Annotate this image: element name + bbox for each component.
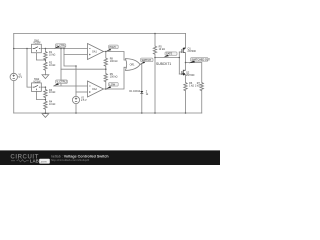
wire OA1 plus input bbox=[64, 54, 88, 56]
resistor R6 bbox=[184, 83, 187, 91]
node flag OA2 out bbox=[106, 83, 118, 89]
svg-text:10 kΩ: 10 kΩ bbox=[49, 53, 56, 56]
svg-text:D1 1N914: D1 1N914 bbox=[129, 90, 140, 93]
ground GND2 bbox=[42, 114, 49, 118]
wire Q1 gate stub bbox=[179, 51, 182, 53]
wire Q1 source bbox=[185, 53, 187, 63]
svg-text:2.5 V: 2.5 V bbox=[81, 99, 87, 102]
svg-text:OR1: OR1 bbox=[130, 64, 136, 67]
wire divider between outputs bbox=[105, 52, 107, 90]
wire input line y48.5 bbox=[14, 48, 88, 50]
wire bottom rail bbox=[14, 112, 202, 114]
svg-text:OA2: OA2 bbox=[92, 88, 97, 91]
wire x155 column bbox=[154, 34, 156, 114]
op-amp OA1 bbox=[88, 44, 104, 60]
svg-text:SWITCHED OUT: SWITCHED OUT bbox=[192, 59, 211, 62]
switch SW1 box bbox=[32, 44, 42, 53]
svg-text:10 kΩ: 10 kΩ bbox=[49, 91, 56, 94]
resistor R5 bbox=[153, 46, 156, 54]
node flag gate bbox=[164, 52, 177, 57]
svg-text:OA1: OA1 bbox=[92, 51, 97, 54]
wire Q1 drain bbox=[185, 34, 187, 49]
logo chip bbox=[39, 159, 50, 164]
svg-text:10 kΩ: 10 kΩ bbox=[159, 48, 166, 51]
wire OR out down bbox=[140, 65, 142, 114]
node flag OR out bbox=[140, 58, 153, 64]
wire SW2 right pin bbox=[41, 86, 45, 88]
svg-text:LAB: LAB bbox=[30, 159, 39, 164]
wire chain2 bbox=[44, 87, 46, 113]
svg-text:HIGH: HIGH bbox=[110, 46, 116, 49]
source V1 bbox=[10, 73, 17, 80]
svg-text:http://circuitlab.com/c9v4qs5: http://circuitlab.com/c9v4qs5 bbox=[51, 158, 90, 162]
svg-text:100 kΩ: 100 kΩ bbox=[110, 75, 118, 78]
svg-text:1 kΩ: 1 kΩ bbox=[189, 84, 194, 87]
svg-text:GATE: GATE bbox=[166, 53, 173, 56]
wire top rail bbox=[14, 33, 186, 35]
resistor R2 bbox=[44, 62, 47, 70]
wire x61 drop to OA2 minus bbox=[54, 49, 88, 87]
node flag left lower bbox=[54, 80, 68, 86]
junction dots bbox=[13, 33, 186, 114]
ground GND1 bbox=[42, 75, 49, 79]
resistor Rb bbox=[104, 74, 107, 82]
node flag OUTPUT bbox=[189, 58, 211, 64]
svg-text:VCSW: VCSW bbox=[33, 42, 41, 45]
wire OA2 out to OR bbox=[104, 67, 127, 89]
wire gate line bbox=[155, 57, 179, 59]
svg-text:.com: .com bbox=[40, 160, 47, 163]
resistor R3 bbox=[44, 89, 47, 97]
resistor R1 bbox=[44, 52, 47, 60]
wire right rail lower bbox=[201, 91, 203, 114]
or-gate OR1 bbox=[125, 59, 140, 71]
node flag OA1 out bbox=[106, 45, 118, 51]
wire left rail lower bbox=[13, 81, 15, 113]
wire SW2 bottom tap bbox=[36, 91, 45, 99]
wire R6 bottom bbox=[185, 91, 187, 114]
svg-text:10 kΩ: 10 kΩ bbox=[49, 64, 56, 67]
wire OA1 out to OR bbox=[104, 52, 127, 61]
svg-text:SUBCKT1: SUBCKT1 bbox=[156, 62, 171, 66]
wire chain1 bbox=[44, 49, 46, 75]
wire V2 bottom bbox=[75, 104, 77, 113]
wire gate bus vertical bbox=[178, 52, 180, 74]
wire y69 to divider mid bbox=[61, 68, 106, 70]
wire SW1 bottom tap bbox=[36, 53, 45, 60]
wire Q2 gate stub bbox=[179, 73, 182, 75]
svg-text:VCSW: VCSW bbox=[33, 80, 41, 83]
node flag IN (left upper) bbox=[54, 44, 66, 49]
svg-text:LOW: LOW bbox=[110, 83, 116, 86]
svg-text:2N7000: 2N7000 bbox=[188, 50, 197, 53]
wire OA2 plus input bbox=[76, 91, 88, 93]
svg-text:100 kΩ: 100 kΩ bbox=[110, 60, 118, 63]
logo squiggle bbox=[11, 160, 29, 162]
op-amp OA2 bbox=[88, 81, 104, 97]
switch SW2 box bbox=[32, 83, 42, 92]
svg-text:5 V: 5 V bbox=[19, 76, 23, 79]
wire x27 drop to SW2 bbox=[27, 49, 32, 88]
wire x64 drop to V2 node bbox=[64, 49, 76, 67]
wire V2 top bbox=[75, 66, 77, 96]
svg-text:SWITCH: SWITCH bbox=[142, 59, 152, 62]
svg-text:2N7000: 2N7000 bbox=[186, 74, 195, 77]
wire Q2 source bbox=[185, 75, 187, 83]
wire Q2 drain bbox=[185, 63, 187, 71]
caption bar bbox=[0, 150, 220, 165]
source V2 bbox=[72, 96, 79, 103]
svg-text:1 kΩ: 1 kΩ bbox=[195, 84, 200, 87]
svg-text:V_CTRL2: V_CTRL2 bbox=[57, 81, 68, 84]
resistor R7 bbox=[200, 83, 203, 91]
wire right rail upper bbox=[186, 63, 202, 83]
resistor Ra bbox=[104, 58, 107, 66]
resistor R4 bbox=[44, 101, 47, 109]
transistor Q2 bbox=[182, 70, 186, 76]
diode D1 bbox=[140, 91, 143, 94]
wire left rail upper bbox=[13, 34, 15, 74]
svg-text:10 kΩ: 10 kΩ bbox=[49, 103, 56, 106]
transistor Q1 bbox=[182, 47, 186, 53]
